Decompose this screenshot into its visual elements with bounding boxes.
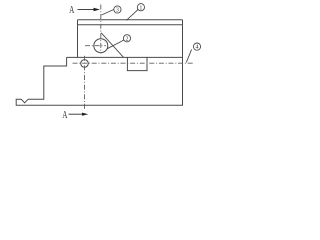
- svg-text:A: A: [62, 110, 68, 121]
- svg-text:A: A: [69, 5, 75, 16]
- svg-text:1: 1: [139, 5, 142, 11]
- svg-text:3: 3: [116, 8, 119, 14]
- svg-text:4: 4: [196, 45, 199, 51]
- svg-text:2: 2: [126, 36, 129, 42]
